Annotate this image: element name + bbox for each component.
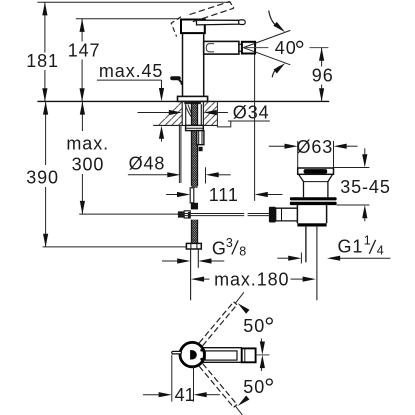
deck line [37, 100, 329, 102]
svg-text:4: 4 [377, 244, 384, 258]
svg-text:max.: max. [66, 133, 109, 153]
mounting washer [186, 125, 204, 130]
svg-text:Ø63: Ø63 [297, 137, 334, 157]
top view faucet body circle [180, 342, 204, 366]
spout [204, 41, 242, 54]
deck hatch right [203, 102, 217, 126]
label 50 degrees lower [243, 377, 272, 397]
svg-text:3: 3 [226, 236, 233, 250]
svg-text:G: G [212, 239, 227, 259]
top view aerator [242, 348, 256, 362]
reference line top of faucet body [76, 18, 180, 20]
hose tube end [191, 249, 199, 300]
deck hatch left [153, 102, 182, 126]
pop-up body [297, 205, 326, 223]
mounting shank hole edges [182, 102, 203, 126]
dimension 111 [166, 185, 282, 205]
rod clamp [178, 211, 191, 218]
dimension G1 1/4 [277, 233, 390, 263]
dimension max.180 [191, 269, 316, 289]
dimension G3/8 [162, 236, 246, 264]
hose nut block [191, 203, 198, 210]
deck bottom line [153, 124, 217, 126]
lever swung down dashed [199, 364, 237, 408]
40 degree arc arrow lower [272, 61, 287, 77]
svg-text:96: 96 [312, 66, 334, 86]
svg-text:300: 300 [72, 154, 105, 174]
top view pull rod stub [172, 351, 182, 354]
braided supply hose lower [191, 220, 197, 244]
svg-text:41: 41 [175, 385, 195, 405]
svg-text:Ø34: Ø34 [233, 102, 270, 122]
pop-up rod knob [170, 76, 182, 85]
pop-up neck [304, 182, 328, 198]
dimension 41 [143, 355, 220, 405]
reference line top of raised lever [37, 1, 230, 3]
braided supply hose upper [191, 102, 197, 188]
pop-up body bottom ring [297, 223, 326, 226]
lever swung down extension line [235, 406, 242, 415]
pop-up pull rod vertical [179, 125, 181, 183]
pop-up waste extension lines [298, 141, 334, 168]
pop-up funnel [299, 174, 333, 181]
40 degree swivel lines [243, 30, 290, 64]
50 degree upper arc arrows [236, 301, 265, 354]
shank top seal [184, 102, 201, 104]
40 degree arc arrow upper [269, 11, 287, 35]
svg-text:181: 181 [26, 51, 59, 71]
lever swung up extension line [235, 292, 244, 303]
svg-text:390: 390 [26, 167, 59, 187]
aerator [242, 42, 255, 54]
raised lever dashed position [171, 2, 234, 37]
dimension 35-45 [334, 148, 391, 221]
dimension 147 [68, 19, 101, 102]
svg-text:147: 147 [68, 40, 101, 60]
svg-text:40: 40 [275, 38, 297, 58]
lever swung up dashed [199, 302, 237, 346]
top view screw dots [200, 349, 203, 361]
dimension Ø48 [128, 154, 231, 184]
svg-text:Ø48: Ø48 [129, 154, 166, 174]
svg-text:50: 50 [243, 377, 265, 397]
spout axis line [246, 47, 329, 49]
pop-up waste flange [298, 168, 334, 174]
50 degree lower arc arrows [236, 355, 265, 408]
dimension max.45 [97, 61, 164, 141]
svg-text:G1: G1 [338, 237, 364, 257]
pop-up plug cap [304, 169, 328, 174]
mounting stud and nut [197, 131, 204, 152]
svg-text:8: 8 [239, 244, 246, 258]
supply hose curves in shank [185, 105, 191, 117]
dimension 96 [312, 48, 334, 102]
label 50 degrees upper [243, 316, 272, 336]
dimension 390 [26, 101, 187, 247]
svg-text:1: 1 [364, 233, 371, 247]
faucet body side view [183, 33, 204, 96]
faucet base flange [178, 96, 208, 101]
horizontal pop-up rod [178, 214, 269, 216]
pop-up locknut [290, 197, 337, 205]
spout tip extension line [254, 54, 256, 201]
G3/8 hose nut [186, 243, 201, 249]
faucet cartridge cap [181, 20, 205, 34]
svg-text:max.180: max.180 [214, 269, 289, 289]
dimension max.300 [66, 101, 178, 214]
svg-text:111: 111 [209, 185, 239, 205]
top view spout axis stub [256, 354, 270, 356]
pop-up tailpipe [306, 227, 317, 301]
pop-up side port [276, 208, 298, 221]
label 40 degrees [275, 38, 303, 58]
hose connector [190, 188, 194, 203]
svg-text:max.45: max.45 [99, 61, 163, 81]
svg-text:50: 50 [243, 316, 265, 336]
dimension Ø34 [138, 102, 270, 122]
top view lever boss [190, 350, 197, 359]
dimension 181 [26, 2, 59, 101]
svg-text:35-45: 35-45 [340, 177, 391, 197]
dimension Ø63 [269, 137, 358, 157]
faucet lever handle [197, 20, 246, 25]
pop-up rod coupling knob [269, 207, 276, 223]
top view spout [202, 348, 242, 363]
deck section break edge [217, 101, 230, 127]
